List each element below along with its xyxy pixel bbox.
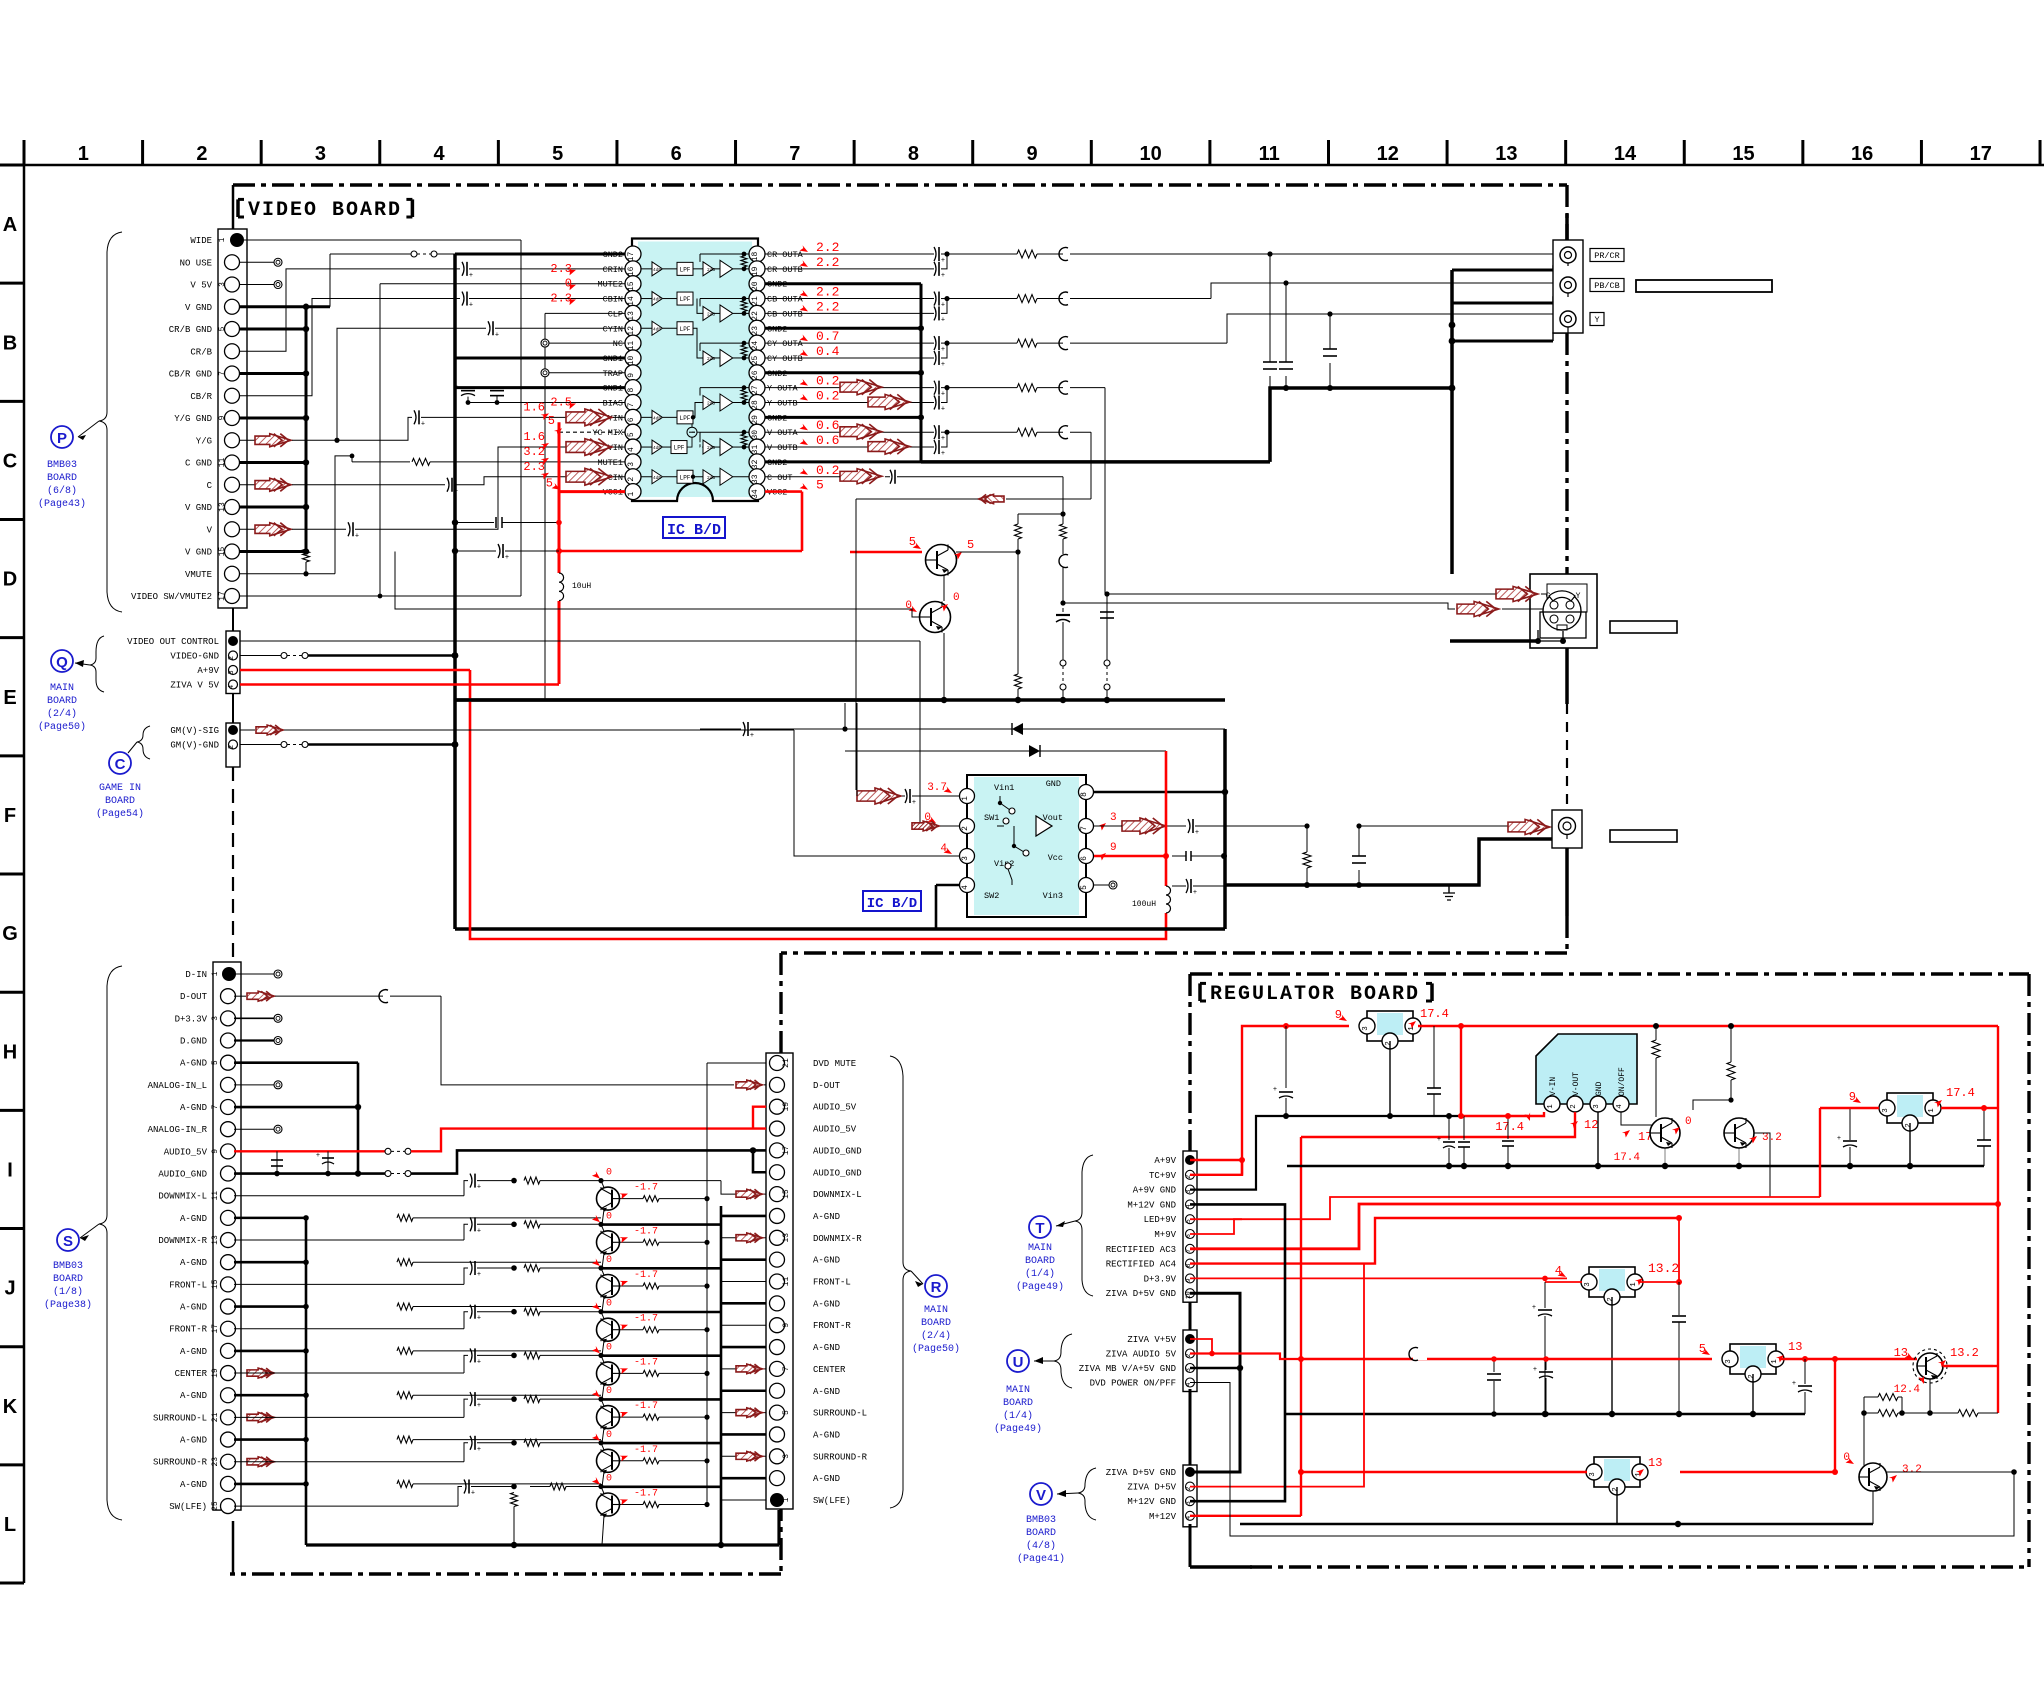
U1 pin 20 GND2: [749, 276, 765, 292]
svg-text:2dB: 2dB: [707, 311, 715, 317]
svg-text:2.5: 2.5: [550, 396, 572, 410]
svg-text:2dB: 2dB: [707, 445, 715, 451]
svg-text:PB/CB: PB/CB: [1594, 281, 1620, 291]
svg-text:DVD MUTE: DVD MUTE: [813, 1059, 856, 1069]
R pin 7 CENTER: [770, 1361, 785, 1376]
svg-text:26: 26: [751, 370, 760, 380]
svg-text:I: I: [7, 1159, 13, 1181]
transistor audio FRONT-L: [601, 1268, 604, 1275]
connector P (BMB03 BOARD 6/8): [218, 229, 247, 608]
svg-text:5: 5: [1080, 885, 1089, 890]
svg-text:A-GND: A-GND: [813, 1474, 840, 1484]
red A+9V/TC+9V wires: [1190, 1159, 1242, 1161]
svg-text:2dB: 2dB: [707, 267, 715, 273]
U1 pin 9 TRAP: [625, 365, 641, 381]
border ruler frame: [0, 164, 2044, 167]
svg-text:7: 7: [211, 1104, 220, 1109]
svg-text:RECTIFIED AC4: RECTIFIED AC4: [1106, 1260, 1176, 1270]
svg-text:Vin3: Vin3: [1043, 891, 1063, 901]
QR2 collector line down: [1754, 1133, 1820, 1197]
T pin 3 A+9V GND: [1186, 1185, 1195, 1194]
P pin 10 Y/G: [225, 433, 240, 448]
svg-text:2: 2: [1607, 1297, 1615, 1302]
svg-text:4: 4: [434, 143, 446, 165]
S-VIDEO connector: [1530, 574, 1597, 648]
svg-text:2dB: 2dB: [707, 475, 715, 481]
svg-text:2dB: 2dB: [707, 401, 715, 407]
svg-text:0.6: 0.6: [816, 418, 839, 433]
U2 pin 5 Vin3: [1079, 878, 1094, 893]
svg-text:+: +: [1792, 1380, 1796, 1388]
svg-text:27: 27: [751, 385, 760, 395]
svg-text:CR OUTA: CR OUTA: [767, 250, 804, 260]
SW2 wire: [936, 884, 959, 887]
svg-text:10: 10: [627, 355, 636, 365]
svg-text:(6/8): (6/8): [47, 485, 77, 497]
wire BIAS: [468, 402, 625, 404]
svg-text:E: E: [3, 687, 16, 709]
svg-text:+: +: [495, 331, 499, 339]
svg-text:11: 11: [211, 1191, 220, 1201]
R pin 6 A-GND: [770, 1383, 785, 1398]
wire CB/R to CBIN: [240, 299, 460, 396]
wire WIDE: [240, 239, 521, 241]
S pin 1 D-IN: [222, 967, 236, 981]
regulator REG7 13: [1594, 1457, 1640, 1487]
wire CYIN: [337, 328, 486, 440]
wire V 5V: [240, 284, 276, 286]
svg-text:(Page54): (Page54): [96, 808, 144, 820]
REG2 pin 2 V-OUT: [1567, 1096, 1583, 1112]
svg-text:P: P: [57, 430, 67, 447]
U1 pin 13 CLP: [625, 305, 641, 321]
U2 pin wires right: [1094, 791, 1225, 794]
connector stems TUV: [1189, 1302, 1192, 1330]
svg-text:0.2: 0.2: [816, 374, 839, 389]
V pin 3 M+12V GND: [1186, 1497, 1195, 1506]
S pin 8 ANALOG-IN_R: [221, 1122, 236, 1137]
svg-text:15: 15: [211, 1279, 220, 1289]
svg-text:(4/8): (4/8): [1026, 1540, 1056, 1552]
S pin 3 D+3.3V: [221, 1011, 236, 1026]
U pin 1 ZIVA V+5V: [1185, 1334, 1195, 1344]
svg-text:A+9V GND: A+9V GND: [1133, 1186, 1176, 1196]
caps under Vout: [1306, 826, 1308, 852]
U1 pin 7 BIAS: [625, 395, 641, 411]
svg-text:+: +: [941, 302, 945, 310]
svg-text:13: 13: [782, 1233, 791, 1243]
svg-text:-1.7: -1.7: [634, 1401, 658, 1412]
R pin 14 A-GND: [770, 1208, 785, 1223]
svg-text:ZIVA AUDIO 5V: ZIVA AUDIO 5V: [1106, 1350, 1177, 1360]
regulator REG6 5-13: [1730, 1344, 1776, 1374]
wire GM(V)-SIG: [240, 729, 255, 731]
svg-text:VIDEO BOARD: VIDEO BOARD: [248, 199, 402, 222]
svg-text:Vin2: Vin2: [994, 859, 1014, 869]
svg-text:A-GND: A-GND: [180, 1059, 207, 1069]
svg-text:(Page49): (Page49): [1016, 1281, 1064, 1293]
audio channel SW(LFE): [234, 1505, 458, 1507]
transistor audio DOWNMIX-R: [601, 1224, 604, 1231]
black rail 1414: [1285, 1413, 1805, 1416]
svg-text:A-GND: A-GND: [180, 1303, 207, 1313]
connector T (MAIN BOARD 1/4): [1183, 1151, 1197, 1302]
svg-text:MUTE2: MUTE2: [597, 280, 623, 290]
svg-text:V GND: V GND: [185, 503, 212, 513]
DVD MUTE wire: [707, 1062, 766, 1064]
V pin 4 M+12V: [1186, 1511, 1195, 1520]
svg-text:13: 13: [218, 502, 227, 512]
audio channel DOWNMIX-R: [234, 1239, 464, 1241]
T pin 6 M+9V: [1186, 1230, 1195, 1239]
svg-text:11: 11: [782, 1277, 791, 1287]
svg-text:+: +: [941, 361, 945, 369]
svg-text:F: F: [4, 805, 16, 827]
caps audio 5v: [276, 1151, 278, 1173]
empty label box: [1636, 280, 1772, 292]
R pin 20 D-OUT: [770, 1077, 785, 1092]
P pin 9 Y/G GND: [225, 411, 240, 426]
red A+9V horizontal row E: [240, 669, 470, 672]
REGULATOR BOARD title: [1198, 983, 1202, 1001]
Y group: [934, 381, 936, 395]
wire CLP: [545, 312, 625, 314]
IC2 bottom gnd wire: [936, 927, 1225, 931]
U1 pin 21 CB OUTA: [749, 291, 765, 307]
AUDIO_5V red wire: [234, 1150, 385, 1152]
P pin 8 CB/R: [225, 388, 240, 403]
svg-text:AUDIO_5V: AUDIO_5V: [164, 1147, 208, 1157]
Q pin 3 A+9V: [229, 666, 238, 675]
transistor audio CENTER: [601, 1355, 604, 1362]
svg-text:2: 2: [1612, 1487, 1620, 1492]
svg-text:YC MIX: YC MIX: [592, 428, 623, 438]
svg-text:17.4: 17.4: [1495, 1120, 1524, 1134]
wire TRAP: [541, 369, 549, 377]
wire VIDEO SW/VMUTE2: [240, 595, 521, 597]
T pin 10 ZIVA D+5V GND: [1186, 1289, 1195, 1298]
svg-text:+: +: [1193, 889, 1197, 897]
svg-text:Y: Y: [1594, 315, 1599, 325]
svg-text:ZIVA V+5V: ZIVA V+5V: [1127, 1335, 1176, 1345]
U1 pin 25 CY OUTB: [749, 350, 765, 366]
svg-text:(Page41): (Page41): [1017, 1553, 1065, 1565]
svg-text:34: 34: [751, 489, 760, 499]
jack PB/CB: [1560, 277, 1576, 293]
U2 pin 6 Vcc: [1079, 849, 1094, 864]
svg-text:2: 2: [228, 656, 236, 660]
S pin 7 A-GND: [221, 1100, 236, 1115]
svg-text:CENTER: CENTER: [175, 1369, 208, 1379]
connector V (BMB03 BOARD 4/8): [1183, 1465, 1197, 1527]
svg-text:AUDIO_GND: AUDIO_GND: [158, 1170, 207, 1180]
svg-text:BOARD: BOARD: [921, 1318, 951, 1329]
svg-text:8: 8: [908, 143, 919, 165]
svg-text:D-IN: D-IN: [185, 970, 207, 980]
C pin 2 GM(V)-GND: [229, 740, 238, 749]
U1 pin 15 MUTE2: [625, 276, 641, 292]
svg-text:BOARD: BOARD: [53, 1274, 83, 1285]
S pin 6 ANALOG-IN_L: [221, 1077, 236, 1092]
svg-text:9: 9: [1026, 143, 1037, 165]
svg-text:5: 5: [546, 477, 553, 491]
red ZIVA V 5V: [240, 683, 557, 686]
svg-text:K: K: [3, 1396, 18, 1418]
U1 pin 6 YIN: [625, 409, 641, 425]
svg-text:VIDEO-GND: VIDEO-GND: [170, 652, 219, 662]
red rail AC3 1204: [1190, 1204, 1998, 1249]
U label: [1054, 1334, 1072, 1388]
svg-text:Q: Q: [56, 654, 68, 671]
P pin 3 V 5V: [225, 277, 240, 292]
svg-text:DOWNMIX-R: DOWNMIX-R: [158, 1236, 207, 1246]
REG2 pin 1 V-IN: [1544, 1096, 1560, 1112]
svg-text:TRAP: TRAP: [603, 369, 623, 379]
R pin 11 FRONT-L: [770, 1274, 785, 1289]
svg-text:21: 21: [211, 1412, 220, 1422]
thick gnd right of IC2: [1223, 729, 1227, 885]
svg-text:+: +: [421, 420, 425, 428]
svg-text:2: 2: [228, 745, 236, 749]
svg-text:17.4: 17.4: [1614, 1152, 1641, 1164]
svg-text:MAIN: MAIN: [50, 683, 74, 694]
svg-text:(2/4): (2/4): [921, 1330, 951, 1342]
svg-text:2dB: 2dB: [707, 356, 715, 362]
red 13 wire to reg7: [1834, 1359, 1836, 1472]
S pin 24 A-GND: [221, 1476, 236, 1491]
black T GND wires: [1190, 1204, 1285, 1501]
svg-text:2.2: 2.2: [816, 255, 839, 270]
svg-text:19: 19: [211, 1368, 220, 1378]
S pin 21 SURROUND-L: [221, 1410, 236, 1425]
svg-text:AUDIO_GND: AUDIO_GND: [813, 1168, 862, 1178]
U1 pin 16 CRIN: [625, 261, 641, 277]
svg-text:+: +: [912, 799, 916, 807]
svg-text:VMUTE: VMUTE: [185, 570, 212, 580]
svg-text:(Page50): (Page50): [38, 721, 86, 733]
svg-text:CR OUTB: CR OUTB: [767, 265, 803, 275]
audio channel DOWNMIX-L: [234, 1195, 464, 1197]
U1 pin 33 C OUT: [749, 469, 765, 485]
DVD POWER ON/PFF gray wire: [1190, 1383, 2014, 1537]
C OUT wire: [840, 469, 882, 484]
P pin 15 V GND: [225, 544, 240, 559]
R pin 8 A-GND: [770, 1340, 785, 1355]
svg-text:0: 0: [606, 1430, 612, 1441]
svg-text:1: 1: [782, 1497, 791, 1502]
wire VCC1 red: [559, 490, 625, 493]
cap + reg4 right: [1849, 1159, 1851, 1161]
svg-text:17.4: 17.4: [1420, 1007, 1449, 1021]
svg-text:SW2: SW2: [984, 891, 999, 901]
A-GND bus P side: [240, 305, 330, 308]
svg-text:30: 30: [751, 430, 760, 440]
svg-text:0: 0: [606, 1255, 612, 1266]
svg-text:0.6: 0.6: [816, 433, 839, 448]
svg-text:15: 15: [218, 547, 227, 557]
svg-text:1.6: 1.6: [523, 400, 545, 414]
svg-text:3: 3: [1725, 1359, 1733, 1364]
svg-text:SW(LFE): SW(LFE): [813, 1496, 851, 1506]
column x=1107: [1106, 594, 1108, 660]
svg-text:-1.7: -1.7: [634, 1357, 658, 1368]
svg-text:CBIN: CBIN: [603, 295, 623, 305]
svg-text:BOARD: BOARD: [47, 473, 77, 484]
svg-text:CB OUTB: CB OUTB: [767, 309, 803, 319]
svg-text:CY OUTB: CY OUTB: [767, 354, 803, 364]
svg-text:ZIVA MB V/A+5V GND: ZIVA MB V/A+5V GND: [1079, 1364, 1176, 1374]
REG2 pin 3 GND: [1590, 1096, 1606, 1112]
S pin 20 A-GND: [221, 1388, 236, 1403]
R pin 18 AUDIO_5V: [770, 1121, 785, 1136]
svg-text:SW1: SW1: [984, 813, 999, 823]
svg-text:+: +: [477, 1315, 481, 1323]
svg-text:A-GND: A-GND: [813, 1212, 840, 1222]
svg-text:13: 13: [1495, 143, 1517, 165]
cap 5V to gnd: [452, 548, 458, 554]
svg-text:1: 1: [1630, 1282, 1638, 1287]
svg-text:7: 7: [627, 402, 636, 407]
svg-text:J: J: [4, 1278, 15, 1300]
red into reg4: [1820, 1107, 1879, 1109]
svg-text:(1/8): (1/8): [53, 1286, 83, 1298]
svg-text:+: +: [316, 1152, 320, 1160]
R pin 2 A-GND: [770, 1471, 785, 1486]
svg-text:1.6: 1.6: [523, 430, 545, 444]
red VCC2 to row bus: [559, 550, 802, 553]
R pin 3 SURROUND-R: [770, 1449, 785, 1464]
svg-text:BMB03: BMB03: [53, 1261, 83, 1272]
svg-text:14: 14: [1614, 143, 1637, 165]
svg-text:ANALOG-IN_L: ANALOG-IN_L: [148, 1081, 207, 1091]
svg-text:FRONT-R: FRONT-R: [813, 1321, 851, 1331]
ANALOG-IN_L wire: [234, 1084, 276, 1086]
VIDEO BOARD title: [236, 199, 240, 217]
svg-text:2: 2: [1385, 1041, 1393, 1046]
svg-text:+: +: [477, 1184, 481, 1192]
svg-text:BOARD: BOARD: [47, 696, 77, 707]
svg-text:3: 3: [228, 670, 236, 674]
P pin 6 CR/B: [225, 344, 240, 359]
REG6 pin2 cap: [1752, 1374, 1754, 1414]
V pin 1 ZIVA D+5V GND: [1185, 1467, 1195, 1477]
U2 pin 4 SW2: [960, 878, 975, 893]
svg-text:A: A: [3, 214, 17, 236]
svg-text:GND: GND: [1595, 1081, 1604, 1096]
U2 pin 1 Vin1: [960, 789, 975, 804]
svg-text:VIDEO SW/VMUTE2: VIDEO SW/VMUTE2: [131, 592, 212, 602]
svg-text:0: 0: [606, 1168, 612, 1179]
svg-text:C OUT: C OUT: [767, 473, 793, 483]
GND bus vertical: [453, 254, 457, 700]
cap 5V to gnd 2: [452, 519, 458, 525]
connector U (MAIN BOARD 1/4): [1183, 1330, 1197, 1392]
wire GND2 pin17: [455, 253, 625, 256]
svg-text:3: 3: [782, 1454, 791, 1459]
resistor network right of Q1: [1018, 513, 1063, 515]
svg-text:C: C: [1546, 592, 1551, 601]
svg-text:0: 0: [606, 1299, 612, 1310]
S pin 11 DOWNMIX-L: [221, 1188, 236, 1203]
svg-text:M+12V: M+12V: [1149, 1512, 1177, 1522]
wire NO USE: [240, 261, 276, 263]
connector S (BMB03 BOARD 1/8): [213, 962, 241, 1510]
svg-text:6: 6: [627, 417, 636, 422]
svg-text:C: C: [207, 481, 213, 491]
svg-text:15: 15: [627, 281, 636, 291]
R pin 16 AUDIO_GND: [770, 1165, 785, 1180]
svg-text:2: 2: [1748, 1374, 1756, 1379]
svg-text:28: 28: [751, 400, 760, 410]
svg-text:BIAS: BIAS: [603, 399, 623, 409]
U1 label box IC B/D: [663, 517, 725, 538]
bead column x=1063: [1060, 524, 1067, 539]
connector C (GAME IN BOARD): [226, 723, 240, 767]
empty label box svideo: [1610, 621, 1677, 633]
R connector A-GND bus: [721, 1215, 766, 1218]
S pin 23 SURROUND-R: [221, 1454, 236, 1469]
svg-text:2: 2: [627, 477, 636, 482]
regulator REG1 9V: [1367, 1011, 1413, 1041]
svg-text:D: D: [3, 569, 17, 591]
svg-text:1: 1: [218, 237, 227, 242]
op-amp IC U1 IC B/D: [638, 242, 752, 498]
GND2 comb right: [765, 282, 921, 285]
transistor audio DOWNMIX-L: [601, 1181, 604, 1188]
svg-text:+: +: [477, 1227, 481, 1235]
svg-text:3: 3: [1882, 1108, 1890, 1113]
svg-text:+: +: [1195, 829, 1199, 837]
diodes: [700, 728, 741, 730]
svg-text:25: 25: [211, 1501, 220, 1511]
svg-text:CENTER: CENTER: [813, 1365, 846, 1375]
svg-text:+: +: [1437, 1136, 1441, 1144]
svg-text:V OUTA: V OUTA: [767, 428, 799, 438]
svg-text:10: 10: [1139, 143, 1161, 165]
inductor 10uH: [553, 573, 565, 601]
U1 pin 24 CY OUTA: [749, 335, 765, 351]
svg-text:4: 4: [940, 843, 947, 855]
svg-text:Y OUTB: Y OUTB: [767, 399, 798, 409]
svg-text:SURROUND-R: SURROUND-R: [153, 1458, 208, 1468]
R pin 13 DOWNMIX-R: [770, 1230, 785, 1245]
U1 pin 22 CB OUTB: [749, 305, 765, 321]
transistor audio SURROUND-R: [601, 1443, 604, 1450]
svg-text:0.2: 0.2: [816, 389, 839, 404]
svg-text:11: 11: [218, 458, 227, 468]
svg-text:29: 29: [751, 415, 760, 425]
caps at 1449/1464 lower: [1804, 1165, 1806, 1167]
svg-text:+: +: [469, 272, 473, 280]
U1 pin 34 VCC2: [749, 484, 765, 500]
red Vcc vertical: [1165, 751, 1168, 886]
svg-text:Vin1: Vin1: [994, 783, 1014, 793]
VIDEO BOARD dash-dot outline: [232, 185, 235, 229]
svg-text:D-OUT: D-OUT: [180, 992, 208, 1002]
C label: [137, 726, 150, 759]
C pin 1 GM(V)-SIG: [228, 725, 238, 735]
S pin 14 A-GND: [221, 1255, 236, 1270]
audio channel FRONT-R: [234, 1328, 464, 1330]
svg-text:3.2: 3.2: [1902, 1464, 1922, 1476]
svg-text:2.3: 2.3: [550, 262, 572, 276]
D-IN wire: [235, 973, 276, 975]
svg-text:9: 9: [1110, 842, 1117, 854]
R pin 1 SW(LFE): [770, 1493, 784, 1507]
svg-text:0: 0: [1685, 1116, 1692, 1128]
svg-text:(1/4): (1/4): [1025, 1268, 1055, 1280]
REG3 caps: [1544, 1282, 1546, 1308]
